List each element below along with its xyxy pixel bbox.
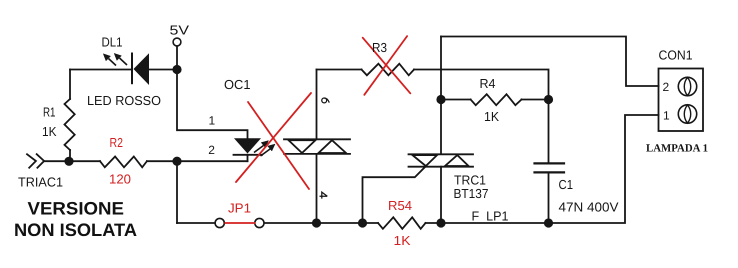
pin 4 of OC1 xyxy=(320,192,328,199)
wire TRC1 MT1 down xyxy=(440,167,442,223)
svg-text:OC1: OC1 xyxy=(224,77,251,92)
wire TRC1 anode vertical xyxy=(440,37,442,154)
svg-text:JP1: JP1 xyxy=(228,201,251,216)
svg-text:BT137: BT137 xyxy=(454,186,489,201)
svg-text:R2: R2 xyxy=(110,135,124,150)
LED DL1 arrow 1 xyxy=(103,53,127,65)
jumper JP1 pad 1 xyxy=(215,218,224,227)
wire R3 row left xyxy=(317,69,362,71)
junction node OC1 pin4 / rail xyxy=(312,218,321,227)
wire OC1 pin6 vertical xyxy=(316,70,318,139)
OC1 emission arrow 2 xyxy=(261,149,271,156)
jumper JP1 pad 2 xyxy=(255,218,264,227)
jumper JP1 red link xyxy=(225,222,256,224)
svg-text:R1: R1 xyxy=(43,105,56,120)
resistor R2 xyxy=(100,157,147,168)
opto-LED OC1 triangle xyxy=(234,138,261,153)
pin 6 of OC1 xyxy=(322,98,330,103)
terminal 5V circle xyxy=(173,38,181,46)
wire bottom rail right xyxy=(426,115,659,223)
triac TRC1 triangle left xyxy=(413,155,438,166)
svg-text:5V: 5V xyxy=(170,23,190,38)
junction node C1 / rail xyxy=(544,218,553,227)
resistor R3 xyxy=(362,64,415,76)
svg-text:1K: 1K xyxy=(42,124,57,139)
phototriac OC1 bottom line xyxy=(284,153,350,155)
wire TRIAC1 to node xyxy=(44,160,100,162)
opto-LED OC1 cathode bar xyxy=(234,154,263,156)
capacitor C1 top lead xyxy=(548,100,550,163)
wire OC1 LED to pin2 xyxy=(247,155,249,161)
triac TRC1 bottom line xyxy=(409,166,474,168)
junction node R1/R2/TRIAC1 xyxy=(64,157,73,166)
svg-text:C1: C1 xyxy=(559,177,574,192)
wire node down to bottom rail xyxy=(176,161,178,223)
svg-text:47N 400V: 47N 400V xyxy=(559,200,619,215)
wire TRC1 gate xyxy=(363,166,426,223)
OC1 emission arrow 1 xyxy=(254,141,275,156)
svg-text:1K: 1K xyxy=(394,233,411,248)
LED DL1 cathode bar xyxy=(131,53,133,85)
wire OC1 pin4 vertical xyxy=(316,155,318,223)
connector CON1 box xyxy=(659,69,704,132)
wire R1 top vertical xyxy=(69,70,71,100)
svg-text:LAMPADA 1: LAMPADA 1 xyxy=(646,142,708,154)
junction node R4 left xyxy=(436,95,445,104)
svg-text:R54: R54 xyxy=(388,198,412,213)
LED DL1 arrow 2 xyxy=(120,58,128,65)
junction node 5V/LED xyxy=(172,65,181,74)
svg-text:DL1: DL1 xyxy=(102,35,123,50)
svg-text:R3: R3 xyxy=(372,40,387,55)
svg-text:VERSIONE: VERSIONE xyxy=(28,199,124,219)
svg-text:CON1: CON1 xyxy=(659,48,693,63)
junction node TRC1 MT1 / rail xyxy=(436,218,445,227)
svg-text:1: 1 xyxy=(663,109,670,123)
svg-text:2: 2 xyxy=(208,143,215,157)
svg-text:1K: 1K xyxy=(484,109,499,124)
triac TRC1 triangle right xyxy=(445,155,469,166)
wire node to OC1 pin2 xyxy=(177,160,248,162)
svg-text:R4: R4 xyxy=(480,76,496,91)
triac TRC1 top line xyxy=(409,153,474,155)
wire node down to OC1 pin1 xyxy=(177,70,248,139)
resistor R1 xyxy=(65,99,75,150)
capacitor C1 plates xyxy=(535,162,565,164)
wire R3 row right xyxy=(414,70,549,100)
wire LED anode to node xyxy=(149,69,177,71)
svg-text:1: 1 xyxy=(209,114,216,128)
red X over R3 xyxy=(363,38,411,94)
svg-text:120: 120 xyxy=(109,172,131,187)
svg-text:F LP1: F LP1 xyxy=(472,209,509,224)
junction node R2/OC1 pin2 xyxy=(172,157,181,166)
red X over OC1 xyxy=(236,36,410,189)
svg-text:LED ROSSO: LED ROSSO xyxy=(87,93,161,108)
phototriac OC1 triangle right xyxy=(319,140,347,153)
connector CON1 screw 2 xyxy=(678,77,696,95)
LED DL1 triangle xyxy=(134,53,150,85)
connector CON1 screw 1 xyxy=(678,105,696,123)
resistor R54 xyxy=(378,217,426,229)
svg-text:TRIAC1: TRIAC1 xyxy=(18,175,63,190)
wire top net xyxy=(441,37,659,87)
resistor R4 xyxy=(441,99,471,101)
phototriac OC1 triangle left xyxy=(289,140,316,153)
wire R1 bottom xyxy=(69,150,71,161)
phototriac OC1 top line xyxy=(284,138,350,140)
svg-text:2: 2 xyxy=(663,80,670,94)
svg-text:NON ISOLATA: NON ISOLATA xyxy=(14,220,137,240)
junction node R4 right / C1 top xyxy=(544,95,553,104)
terminal TRIAC1 chevron xyxy=(27,154,36,168)
wire bottom rail middle xyxy=(264,222,378,224)
wire 5V vertical xyxy=(176,46,178,70)
wire R2 to node xyxy=(147,160,177,162)
capacitor C1 bottom lead xyxy=(548,174,550,224)
wire LED row left xyxy=(70,69,132,71)
junction node gate / rail xyxy=(358,218,367,227)
wire bottom rail left xyxy=(177,222,216,224)
